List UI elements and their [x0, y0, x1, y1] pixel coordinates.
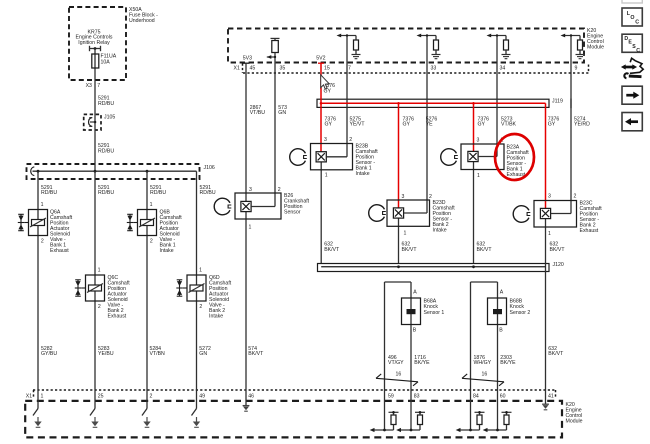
svg-text:C: C [636, 48, 640, 54]
svg-text:A: A [413, 290, 417, 296]
svg-text:Underhood: Underhood [129, 18, 155, 24]
svg-text:1: 1 [150, 202, 153, 208]
svg-text:3: 3 [402, 194, 405, 200]
svg-text:1: 1 [41, 202, 44, 208]
svg-text:GY: GY [324, 88, 332, 94]
svg-text:83: 83 [414, 393, 420, 399]
svg-text:Exhaust: Exhaust [50, 248, 69, 254]
svg-text:49: 49 [199, 393, 205, 399]
svg-text:WH/GY: WH/GY [474, 360, 492, 366]
svg-text:BK/VT: BK/VT [548, 351, 564, 357]
svg-text:Exhaust: Exhaust [580, 228, 599, 234]
svg-text:3: 3 [477, 138, 480, 144]
svg-text:RD/BU: RD/BU [150, 190, 166, 196]
svg-text:41: 41 [548, 393, 554, 399]
svg-text:Sensor 1: Sensor 1 [424, 310, 445, 316]
svg-text:7: 7 [348, 65, 351, 71]
svg-text:B: B [499, 328, 503, 334]
svg-text:Intake: Intake [160, 248, 174, 254]
svg-text:Intake: Intake [433, 227, 447, 233]
svg-text:5V3: 5V3 [243, 55, 252, 61]
svg-text:1: 1 [199, 268, 202, 274]
svg-text:GY/BU: GY/BU [41, 351, 57, 357]
svg-text:2: 2 [574, 194, 577, 200]
svg-text:RD/BU: RD/BU [98, 101, 114, 107]
svg-text:J120: J120 [553, 262, 564, 268]
svg-text:BK/VT: BK/VT [477, 247, 493, 253]
svg-text:J106: J106 [204, 165, 215, 171]
svg-text:J105: J105 [104, 115, 115, 121]
svg-text:Intake: Intake [356, 171, 370, 177]
svg-text:B: B [413, 328, 417, 334]
svg-text:2: 2 [278, 187, 281, 193]
svg-text:GN: GN [199, 351, 207, 357]
svg-text:Intake: Intake [209, 314, 223, 320]
svg-text:GY: GY [403, 122, 411, 128]
svg-text:GY: GY [548, 122, 556, 128]
svg-text:3: 3 [324, 137, 327, 143]
svg-text:1: 1 [249, 224, 252, 230]
svg-text:7: 7 [97, 83, 100, 89]
svg-text:A: A [500, 290, 504, 296]
svg-text:2: 2 [199, 304, 202, 310]
svg-text:BK/VT: BK/VT [402, 247, 418, 253]
svg-text:1: 1 [41, 393, 44, 399]
svg-text:VT/BK: VT/BK [501, 122, 517, 128]
svg-text:YE/VT: YE/VT [350, 122, 366, 128]
svg-text:Module: Module [566, 419, 583, 425]
svg-text:X1: X1 [26, 393, 32, 399]
svg-text:Sensor: Sensor [284, 209, 301, 215]
svg-text:34: 34 [500, 65, 506, 71]
svg-text:Exhaust: Exhaust [108, 314, 127, 320]
svg-text:1: 1 [325, 173, 328, 179]
svg-text:BK/YE: BK/YE [414, 360, 430, 366]
svg-text:25: 25 [98, 393, 104, 399]
svg-text:BK/VT: BK/VT [550, 247, 566, 253]
svg-text:2: 2 [41, 239, 44, 245]
svg-text:X3: X3 [86, 83, 92, 89]
svg-text:45: 45 [250, 65, 256, 71]
svg-text:YE/RD: YE/RD [574, 122, 590, 128]
svg-text:2: 2 [349, 137, 352, 143]
svg-text:1: 1 [98, 268, 101, 274]
svg-text:RD/BU: RD/BU [200, 190, 216, 196]
svg-text:1: 1 [404, 231, 407, 237]
svg-text:Ignition Relay: Ignition Relay [78, 40, 110, 46]
svg-text:VT/BN: VT/BN [150, 351, 166, 357]
svg-text:RD/BU: RD/BU [98, 190, 114, 196]
svg-text:O: O [630, 15, 634, 21]
svg-text:3: 3 [548, 194, 551, 200]
svg-text:3: 3 [249, 187, 252, 193]
svg-text:GY: GY [478, 122, 486, 128]
svg-text:2: 2 [150, 393, 153, 399]
svg-text:C: C [635, 19, 639, 25]
svg-text:YE/BU: YE/BU [98, 351, 114, 357]
svg-text:9: 9 [575, 65, 578, 71]
svg-text:5V2: 5V2 [316, 55, 325, 61]
svg-text:BK/VT: BK/VT [324, 247, 340, 253]
svg-text:16: 16 [396, 372, 402, 378]
svg-text:BK/VT: BK/VT [248, 351, 264, 357]
svg-text:46: 46 [248, 393, 254, 399]
svg-text:1: 1 [477, 173, 480, 179]
svg-text:2: 2 [98, 304, 101, 310]
svg-text:2: 2 [429, 194, 432, 200]
svg-text:RD/BU: RD/BU [41, 190, 57, 196]
svg-text:16: 16 [482, 372, 488, 378]
svg-text:59: 59 [388, 393, 394, 399]
svg-text:VT/GY: VT/GY [388, 360, 404, 366]
svg-text:YE: YE [426, 122, 433, 128]
svg-text:2: 2 [150, 239, 153, 245]
svg-text:33: 33 [431, 65, 437, 71]
svg-text:Module: Module [587, 45, 604, 51]
svg-text:J119: J119 [552, 99, 563, 105]
svg-text:Sensor 2: Sensor 2 [510, 310, 531, 316]
svg-text:VT/BU: VT/BU [250, 110, 266, 116]
svg-text:BK/YE: BK/YE [500, 360, 516, 366]
svg-text:35: 35 [280, 65, 286, 71]
svg-text:GY: GY [325, 122, 333, 128]
svg-text:60: 60 [500, 393, 506, 399]
svg-text:1: 1 [548, 231, 551, 237]
svg-text:X1: X1 [234, 65, 240, 71]
svg-text:GN: GN [278, 110, 286, 116]
svg-text:RD/BU: RD/BU [98, 149, 114, 155]
svg-text:15: 15 [324, 65, 330, 71]
svg-text:10A: 10A [101, 59, 111, 65]
svg-text:84: 84 [473, 393, 479, 399]
